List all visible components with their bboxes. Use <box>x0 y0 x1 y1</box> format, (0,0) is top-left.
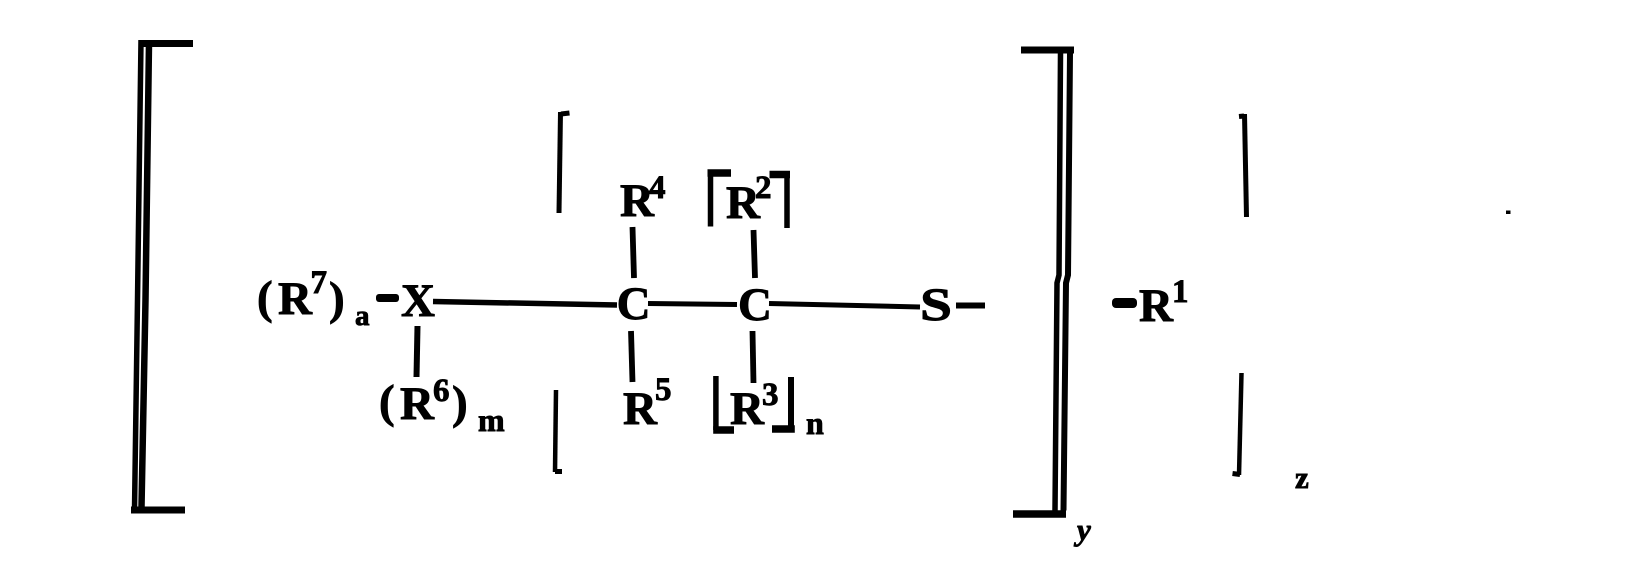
inner repeat bracket lower-left piece <box>555 390 562 472</box>
bond X down to (R6)m <box>417 326 418 377</box>
svg-text:7: 7 <box>311 265 328 301</box>
bracket floor-right of R3 <box>772 377 795 429</box>
svg-text:m: m <box>478 402 505 438</box>
svg-text:4: 4 <box>649 170 666 206</box>
bracket ceil-right of R2 <box>770 171 791 228</box>
svg-text:R: R <box>400 378 435 430</box>
svg-text:y: y <box>1073 512 1091 547</box>
bond C1 to C2 <box>648 304 737 305</box>
svg-text:5: 5 <box>655 372 672 408</box>
svg-text:a: a <box>355 300 370 332</box>
bond C2 down to R3 <box>753 331 754 383</box>
svg-text:R: R <box>730 383 765 435</box>
svg-text:X: X <box>401 275 435 327</box>
dash before R1 <box>1112 298 1137 308</box>
bond C2 to S <box>769 304 920 308</box>
svg-text:R: R <box>1139 280 1174 332</box>
svg-text:R: R <box>278 273 313 325</box>
svg-text:1: 1 <box>1172 274 1189 310</box>
single bond dash before X <box>376 294 399 302</box>
svg-text:C: C <box>738 279 772 331</box>
bond X to C1 <box>433 302 617 306</box>
right outer bracket with subscript y <box>1013 50 1074 514</box>
svg-text:3: 3 <box>762 377 779 413</box>
tall right bracket upper piece <box>1239 114 1247 217</box>
left outer bracket <box>131 40 193 510</box>
svg-text:6: 6 <box>433 373 450 409</box>
svg-text:): ) <box>329 273 345 325</box>
svg-text:(: ( <box>257 272 273 324</box>
svg-text:C: C <box>617 278 651 330</box>
bond R4 to C1 <box>633 227 635 278</box>
svg-text:2: 2 <box>755 170 772 206</box>
tall right bracket lower piece <box>1233 373 1242 475</box>
bracket ceil-left of R2 <box>708 170 732 227</box>
svg-text:): ) <box>452 377 468 429</box>
svg-text:z: z <box>1295 460 1309 495</box>
svg-text:S: S <box>920 279 952 331</box>
svg-text:n: n <box>806 405 824 441</box>
bracket floor-left of R3 <box>713 376 734 430</box>
stray ink dot <box>1506 211 1511 215</box>
bond R2 to C2 <box>754 230 756 278</box>
svg-text:(: ( <box>379 376 395 428</box>
inner repeat bracket upper-left piece <box>559 112 570 213</box>
bond C1 down to R5 <box>631 331 633 382</box>
svg-text:R: R <box>623 383 658 435</box>
bond dash after S <box>956 303 985 309</box>
